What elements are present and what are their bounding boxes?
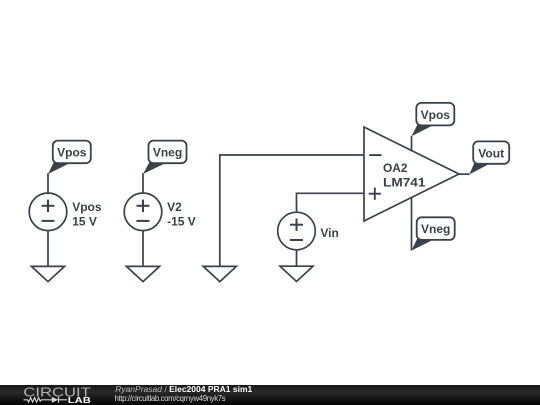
svg-text:LM741: LM741 [383,175,426,189]
svg-text:http://circuitlab.com/cqrnyw49: http://circuitlab.com/cqrnyw49nyk7s [115,394,226,403]
wire [47,173,49,194]
svg-text:15 V: 15 V [72,214,97,228]
net flag Vpos on V1 [48,141,91,174]
ground [126,266,159,281]
footer bar [0,385,540,405]
voltage source Vin [278,212,316,250]
svg-text:OA2: OA2 [383,161,408,175]
svg-text:Vin: Vin [320,226,338,240]
wire [142,231,144,267]
value label V2 -15 V [167,200,196,228]
wire op-amp V+ pin [411,136,413,152]
svg-text:Vout: Vout [478,146,504,160]
svg-text:RyanPrasad / Elec2004 PRA1 sim: RyanPrasad / Elec2004 PRA1 sim1 [115,384,252,394]
svg-text:Vneg: Vneg [421,222,450,236]
svg-text:Vpos: Vpos [57,146,87,160]
net flag Vpos on op-amp [412,103,455,136]
wire op-amp output [459,173,470,175]
svg-text:Vpos: Vpos [421,108,451,122]
svg-text:LAB: LAB [68,395,91,405]
net flag Vout [469,141,509,174]
voltage source V2 [124,193,162,231]
svg-text:V2: V2 [167,200,182,214]
net flag Vneg on V2 [143,141,187,174]
svg-text:-15 V: -15 V [167,214,196,228]
ground [31,266,64,281]
svg-text:Vpos: Vpos [72,200,102,214]
value label Vpos 15 V [72,200,102,228]
wire [142,173,144,194]
wire to inverting input [220,155,364,267]
wire [296,250,298,270]
svg-text:Vneg: Vneg [153,146,182,160]
wire [47,231,49,267]
op-amp OA2 LM741 [364,127,459,221]
voltage source Vpos [29,193,67,231]
wire op-amp V- pin [411,197,413,250]
CircuitLab logo [23,385,91,405]
wire to non-inverting input [297,193,365,213]
ground [280,266,313,281]
net flag Vneg on op-amp [412,217,455,250]
ground [203,266,236,281]
